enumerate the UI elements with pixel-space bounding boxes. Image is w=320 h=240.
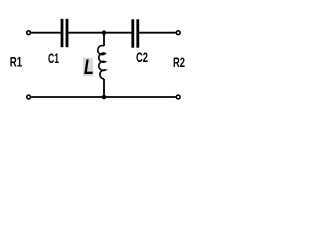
svg-text:R2: R2 [173,54,185,70]
svg-text:C1: C1 [48,50,59,66]
svg-text:L: L [84,56,94,79]
svg-text:C2: C2 [136,49,148,65]
svg-text:R1: R1 [10,54,23,70]
